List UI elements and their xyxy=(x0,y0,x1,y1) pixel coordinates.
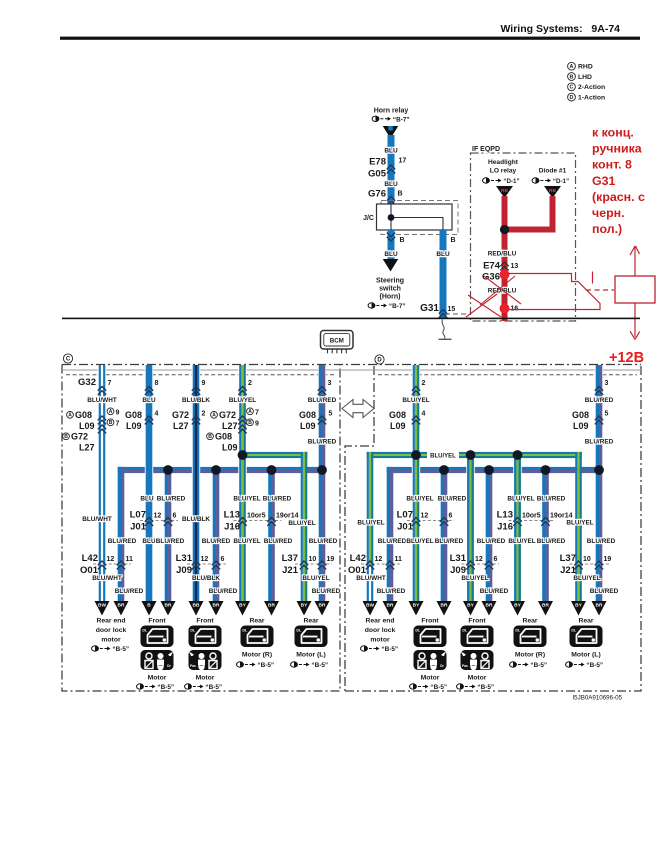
svg-text:door lock: door lock xyxy=(365,627,396,634)
svg-text:17: 17 xyxy=(399,158,407,165)
svg-text:G72: G72 xyxy=(71,431,88,441)
svg-text:(красн. с: (красн. с xyxy=(592,190,645,204)
svg-text:BLU: BLU xyxy=(384,148,398,155)
svg-text:BLU/RED: BLU/RED xyxy=(264,538,293,545)
svg-text:B: B xyxy=(64,434,68,440)
svg-text:L31: L31 xyxy=(450,553,467,564)
svg-text:BLU/RED: BLU/RED xyxy=(156,538,185,545)
svg-text:L37: L37 xyxy=(560,553,576,564)
svg-text:BLU/RED: BLU/RED xyxy=(309,538,338,545)
svg-text:BLU: BLU xyxy=(142,538,156,545)
svg-text:12: 12 xyxy=(154,513,162,520)
svg-text:к конц.: к конц. xyxy=(592,126,634,140)
svg-text:BLU/RED: BLU/RED xyxy=(378,538,407,545)
svg-text:BLU/BLK: BLU/BLK xyxy=(192,575,220,582)
svg-text:BLU/RED: BLU/RED xyxy=(108,538,137,545)
svg-text:Wiring Systems: 9A-74: Wiring Systems: 9A-74 xyxy=(500,23,620,35)
svg-text:L09: L09 xyxy=(79,421,95,431)
svg-text:BLU/BLK: BLU/BLK xyxy=(182,397,210,404)
svg-text:RED/BLU: RED/BLU xyxy=(488,251,517,258)
svg-text:L27: L27 xyxy=(222,421,238,431)
svg-text:(Horn): (Horn) xyxy=(380,294,401,301)
svg-text:6: 6 xyxy=(494,556,498,563)
svg-text:DL: DL xyxy=(415,629,421,633)
svg-text:BLU/RED: BLU/RED xyxy=(263,496,292,503)
svg-text:BLU/BLK: BLU/BLK xyxy=(182,516,210,523)
svg-text:BLU/RED: BLU/RED xyxy=(477,538,506,545)
svg-text:BR: BR xyxy=(486,603,493,609)
svg-text:E74: E74 xyxy=(483,261,501,272)
svg-text:2: 2 xyxy=(248,380,252,387)
svg-text:J16: J16 xyxy=(224,522,240,533)
svg-text:switch: switch xyxy=(379,286,401,293)
svg-text:DL: DL xyxy=(462,629,468,633)
svg-text:BLU: BLU xyxy=(384,181,398,188)
svg-text:BLU/YEL: BLU/YEL xyxy=(573,575,600,582)
svg-text:Motor: Motor xyxy=(196,675,215,682)
svg-text:19or14: 19or14 xyxy=(550,513,573,520)
svg-text:12: 12 xyxy=(375,556,383,563)
svg-text:Rear: Rear xyxy=(249,618,264,625)
svg-text:A: A xyxy=(109,409,113,415)
svg-text:BLU/YEL: BLU/YEL xyxy=(302,575,329,582)
svg-text:Front: Front xyxy=(196,618,214,625)
svg-text:7: 7 xyxy=(255,409,259,416)
svg-text:BY: BY xyxy=(413,603,420,609)
svg-text:BLU/RED: BLU/RED xyxy=(312,588,341,595)
svg-text:J09: J09 xyxy=(176,565,192,576)
svg-text:Rear: Rear xyxy=(522,618,537,625)
svg-text:Rear: Rear xyxy=(303,618,318,625)
svg-text:C: C xyxy=(570,85,574,91)
svg-text:Front: Front xyxy=(148,618,166,625)
svg-text:черн.: черн. xyxy=(592,206,625,220)
svg-text:G72: G72 xyxy=(219,410,236,420)
svg-text:6: 6 xyxy=(221,556,225,563)
svg-text:BLU/RED: BLU/RED xyxy=(377,588,406,595)
svg-text:10: 10 xyxy=(309,556,317,563)
svg-text:BR: BR xyxy=(596,603,603,609)
svg-text:L31: L31 xyxy=(176,553,193,564)
svg-text:G31: G31 xyxy=(592,174,616,188)
svg-text:BLU/RED: BLU/RED xyxy=(209,588,238,595)
svg-text:J21: J21 xyxy=(282,565,299,576)
svg-text:+12В: +12В xyxy=(609,350,644,366)
svg-text:RHD: RHD xyxy=(578,64,593,71)
svg-text:G08: G08 xyxy=(299,410,316,420)
svg-text:D: D xyxy=(377,358,382,364)
svg-text:G08: G08 xyxy=(215,431,232,441)
svg-text:B: B xyxy=(109,420,113,426)
svg-text:BLU/RED: BLU/RED xyxy=(537,496,566,503)
svg-text:12: 12 xyxy=(107,556,115,563)
svg-text:BLU/YEL: BLU/YEL xyxy=(402,397,429,404)
svg-text:A: A xyxy=(570,64,574,70)
svg-text:BLU: BLU xyxy=(142,397,156,404)
svg-text:L42: L42 xyxy=(350,553,366,564)
svg-text:DL: DL xyxy=(142,629,148,633)
svg-text:BLU/YEL: BLU/YEL xyxy=(233,496,260,503)
svg-text:motor: motor xyxy=(101,637,121,644)
svg-text:3: 3 xyxy=(328,380,332,387)
svg-text:BLU/WHT: BLU/WHT xyxy=(92,575,122,582)
svg-text:13: 13 xyxy=(511,263,519,270)
svg-text:BR: BR xyxy=(118,603,125,609)
svg-text:BLU/WHT: BLU/WHT xyxy=(82,516,112,523)
svg-text:L07: L07 xyxy=(130,510,146,521)
svg-text:A: A xyxy=(248,409,252,415)
svg-text:Motor: Motor xyxy=(468,675,487,682)
svg-text:12: 12 xyxy=(475,556,483,563)
svg-text:I5JB0A910696-05: I5JB0A910696-05 xyxy=(572,695,622,702)
svg-text:DL: DL xyxy=(242,629,248,633)
svg-text:G08: G08 xyxy=(75,410,92,420)
svg-text:“B-7”: “B-7” xyxy=(389,303,406,310)
svg-text:Rear end: Rear end xyxy=(96,618,125,625)
svg-text:L09: L09 xyxy=(222,442,238,452)
svg-text:ручника: ручника xyxy=(592,142,642,156)
svg-text:“B-5”: “B-5” xyxy=(257,662,274,669)
svg-text:BLU/RED: BLU/RED xyxy=(585,397,614,404)
svg-text:BLU/YEL: BLU/YEL xyxy=(508,538,535,545)
svg-text:9: 9 xyxy=(255,420,259,427)
svg-text:BLU/RED: BLU/RED xyxy=(202,538,231,545)
svg-text:door lock: door lock xyxy=(96,627,127,634)
svg-text:B: B xyxy=(400,237,405,244)
svg-text:B: B xyxy=(248,420,252,426)
svg-text:BLU/RED: BLU/RED xyxy=(435,538,464,545)
svg-text:BLU: BLU xyxy=(140,496,154,503)
svg-text:4: 4 xyxy=(422,411,426,418)
svg-text:BR: BR xyxy=(387,603,394,609)
svg-text:10or5: 10or5 xyxy=(247,513,266,520)
svg-text:BCM: BCM xyxy=(330,338,344,345)
svg-text:пол.): пол.) xyxy=(592,222,622,236)
svg-text:Motor: Motor xyxy=(421,675,440,682)
svg-text:B: B xyxy=(398,191,403,198)
svg-text:BLU/RED: BLU/RED xyxy=(308,439,337,446)
svg-text:6: 6 xyxy=(173,513,177,520)
svg-text:“B-5”: “B-5” xyxy=(205,684,222,691)
svg-text:DL: DL xyxy=(190,629,196,633)
svg-text:10or5: 10or5 xyxy=(522,513,541,520)
svg-text:“B-5”: “B-5” xyxy=(311,662,328,669)
svg-text:Diode #1: Diode #1 xyxy=(539,168,567,175)
svg-text:C: C xyxy=(66,357,71,363)
svg-text:19: 19 xyxy=(604,556,612,563)
svg-text:BR: BR xyxy=(165,603,172,609)
svg-text:G08: G08 xyxy=(572,410,589,420)
svg-text:“D-1”: “D-1” xyxy=(503,178,519,185)
svg-text:L09: L09 xyxy=(126,421,142,431)
svg-text:LHD: LHD xyxy=(578,74,592,81)
svg-text:BLU/YEL: BLU/YEL xyxy=(406,496,433,503)
svg-text:BY: BY xyxy=(239,603,246,609)
svg-text:J16: J16 xyxy=(497,522,513,533)
svg-text:2: 2 xyxy=(202,411,206,418)
svg-text:1-Action: 1-Action xyxy=(578,94,605,101)
svg-text:19or14: 19or14 xyxy=(276,513,299,520)
svg-text:BLU/YEL: BLU/YEL xyxy=(357,520,384,527)
svg-text:BLU/RED: BLU/RED xyxy=(115,588,144,595)
svg-text:Pas: Pas xyxy=(190,664,196,668)
svg-text:BLU/WHT: BLU/WHT xyxy=(87,397,117,404)
svg-text:J01: J01 xyxy=(130,522,147,533)
svg-text:BLU/RED: BLU/RED xyxy=(537,538,566,545)
svg-text:“B-5”: “B-5” xyxy=(530,662,547,669)
svg-text:“B-7”: “B-7” xyxy=(393,116,410,123)
svg-text:L27: L27 xyxy=(79,442,95,452)
svg-text:5: 5 xyxy=(605,411,609,418)
svg-text:DL: DL xyxy=(515,629,521,633)
svg-text:7: 7 xyxy=(108,380,112,387)
svg-text:BLU/YEL: BLU/YEL xyxy=(507,496,534,503)
svg-text:11: 11 xyxy=(395,556,403,563)
svg-text:BLU: BLU xyxy=(384,251,398,258)
svg-text:BR: BR xyxy=(268,603,275,609)
svg-text:BY: BY xyxy=(514,603,521,609)
svg-text:BY: BY xyxy=(301,603,308,609)
svg-text:BLU/YEL: BLU/YEL xyxy=(461,575,488,582)
svg-text:A: A xyxy=(68,413,72,419)
svg-text:5: 5 xyxy=(329,411,333,418)
svg-text:LO relay: LO relay xyxy=(490,168,517,175)
svg-text:L09: L09 xyxy=(573,421,589,431)
svg-text:9: 9 xyxy=(202,380,206,387)
svg-text:“B-5”: “B-5” xyxy=(430,684,447,691)
svg-text:BLU/WHT: BLU/WHT xyxy=(356,575,386,582)
svg-text:BLU: BLU xyxy=(436,251,450,258)
svg-text:L42: L42 xyxy=(82,553,98,564)
svg-text:10: 10 xyxy=(583,556,591,563)
svg-text:L07: L07 xyxy=(397,510,413,521)
svg-text:6: 6 xyxy=(449,513,453,520)
svg-text:RB: RB xyxy=(549,188,556,194)
svg-text:BR: BR xyxy=(213,603,220,609)
svg-text:BLU/YEL: BLU/YEL xyxy=(566,520,593,527)
svg-text:IF EQPD: IF EQPD xyxy=(472,146,500,153)
svg-text:2: 2 xyxy=(422,380,426,387)
svg-text:4: 4 xyxy=(155,411,159,418)
svg-text:Motor (L): Motor (L) xyxy=(296,652,325,659)
svg-text:BLU/YEL: BLU/YEL xyxy=(233,538,260,545)
svg-text:“B-5”: “B-5” xyxy=(477,684,494,691)
svg-text:L13: L13 xyxy=(224,510,240,521)
svg-text:“D-1”: “D-1” xyxy=(553,178,569,185)
svg-text:BW: BW xyxy=(98,603,106,609)
svg-text:G08: G08 xyxy=(125,410,142,420)
svg-text:Front: Front xyxy=(421,618,439,625)
svg-text:BLU/RED: BLU/RED xyxy=(438,496,467,503)
svg-text:E78: E78 xyxy=(369,157,386,168)
svg-text:G05: G05 xyxy=(368,169,387,180)
svg-text:Motor (R): Motor (R) xyxy=(242,652,272,659)
svg-text:BW: BW xyxy=(366,603,374,609)
svg-text:Rear: Rear xyxy=(578,618,593,625)
svg-text:motor: motor xyxy=(370,637,390,644)
svg-text:Front: Front xyxy=(468,618,486,625)
svg-text:Headlight: Headlight xyxy=(488,159,519,166)
svg-text:Pas: Pas xyxy=(462,664,468,668)
svg-text:3: 3 xyxy=(605,380,609,387)
svg-text:BLU/RED: BLU/RED xyxy=(585,439,614,446)
svg-text:A: A xyxy=(212,413,216,419)
svg-text:L37: L37 xyxy=(282,553,298,564)
svg-text:B: B xyxy=(208,434,212,440)
svg-text:G08: G08 xyxy=(389,410,406,420)
svg-text:B: B xyxy=(147,603,151,609)
svg-text:L09: L09 xyxy=(390,421,406,431)
svg-text:BY: BY xyxy=(575,603,582,609)
svg-text:15: 15 xyxy=(448,306,456,313)
svg-text:“B-5”: “B-5” xyxy=(381,646,398,653)
svg-text:G76: G76 xyxy=(368,189,386,200)
svg-text:BLU/YEL: BLU/YEL xyxy=(406,538,433,545)
svg-text:BR: BR xyxy=(319,603,326,609)
svg-text:J01: J01 xyxy=(397,522,414,533)
svg-text:“B-5”: “B-5” xyxy=(112,646,129,653)
svg-text:L09: L09 xyxy=(300,421,316,431)
svg-text:BB: BB xyxy=(193,603,200,609)
svg-text:Motor (R): Motor (R) xyxy=(515,652,545,659)
svg-text:BLU/RED: BLU/RED xyxy=(157,496,186,503)
svg-text:BY: BY xyxy=(467,603,474,609)
svg-text:12: 12 xyxy=(421,513,429,520)
svg-text:BLU/YEL: BLU/YEL xyxy=(229,397,256,404)
svg-text:7: 7 xyxy=(116,420,120,427)
svg-text:BLU/RED: BLU/RED xyxy=(480,588,509,595)
svg-text:BR: BR xyxy=(441,603,448,609)
svg-text:конт. 8: конт. 8 xyxy=(592,158,632,172)
svg-text:11: 11 xyxy=(126,556,134,563)
svg-text:BLU/YEL: BLU/YEL xyxy=(430,454,456,460)
svg-text:B: B xyxy=(451,237,456,244)
svg-text:DL: DL xyxy=(296,629,302,633)
svg-text:L27: L27 xyxy=(173,421,189,431)
svg-text:DL: DL xyxy=(571,629,577,633)
svg-text:BLU/RED: BLU/RED xyxy=(590,588,619,595)
svg-text:L13: L13 xyxy=(497,510,513,521)
svg-text:G32: G32 xyxy=(78,377,96,388)
svg-text:2-Action: 2-Action xyxy=(578,84,605,91)
svg-text:BLU/RED: BLU/RED xyxy=(587,538,616,545)
svg-text:Motor: Motor xyxy=(148,675,167,682)
svg-text:“B-5”: “B-5” xyxy=(586,662,603,669)
svg-text:19: 19 xyxy=(327,556,335,563)
svg-text:Motor (L): Motor (L) xyxy=(571,652,600,659)
svg-text:B: B xyxy=(570,74,574,80)
svg-text:Steering: Steering xyxy=(376,278,404,285)
svg-text:Horn relay: Horn relay xyxy=(374,108,409,115)
svg-text:BLU/YEL: BLU/YEL xyxy=(288,520,315,527)
svg-text:12: 12 xyxy=(201,556,209,563)
svg-text:8: 8 xyxy=(155,380,159,387)
svg-text:BR: BR xyxy=(542,603,549,609)
svg-text:RED/BLU: RED/BLU xyxy=(488,288,517,295)
svg-text:RB: RB xyxy=(501,188,508,194)
svg-text:“B-5”: “B-5” xyxy=(157,684,174,691)
svg-text:G31: G31 xyxy=(420,303,439,314)
svg-text:9: 9 xyxy=(116,409,120,416)
svg-text:G72: G72 xyxy=(172,410,189,420)
svg-text:BLU/RED: BLU/RED xyxy=(308,397,337,404)
svg-text:J/C: J/C xyxy=(363,215,374,222)
svg-text:Rear end: Rear end xyxy=(365,618,394,625)
svg-text:D: D xyxy=(570,95,574,101)
